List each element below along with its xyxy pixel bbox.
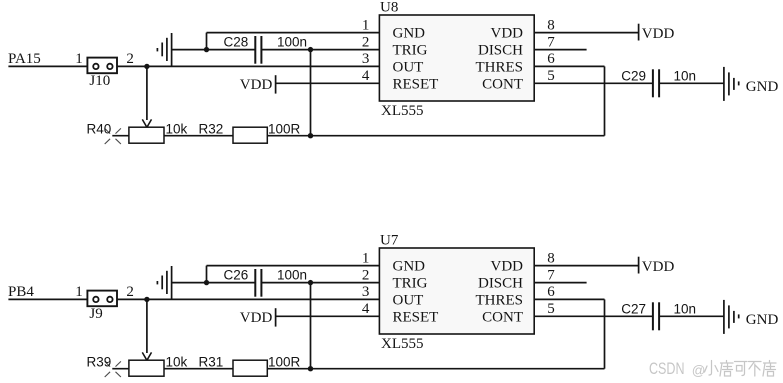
svg-text:7: 7 [547,267,555,283]
svg-text:TRIG: TRIG [393,43,428,59]
svg-text:4: 4 [362,68,370,84]
svg-text:DISCH: DISCH [478,276,523,292]
svg-text:3: 3 [362,284,370,300]
svg-text:100R: 100R [268,354,301,369]
svg-text:PA15: PA15 [8,51,41,67]
svg-text:C26: C26 [224,267,249,282]
svg-text:2: 2 [362,267,370,283]
svg-text:C28: C28 [224,34,249,49]
svg-text:OUT: OUT [393,292,424,308]
svg-text:PB4: PB4 [8,284,34,300]
svg-text:XL555: XL555 [381,103,424,119]
svg-text:R40: R40 [87,121,112,136]
svg-text:R31: R31 [199,354,224,369]
svg-text:J10: J10 [89,73,110,89]
svg-text:10k: 10k [166,354,188,369]
svg-text:VDD: VDD [642,259,675,275]
svg-text:6: 6 [547,51,555,67]
svg-text:VDD: VDD [642,26,675,42]
svg-text:100n: 100n [277,267,307,282]
svg-text:10k: 10k [166,121,188,136]
svg-text:2: 2 [126,284,133,300]
svg-text:2: 2 [362,34,370,50]
svg-text:VDD: VDD [240,310,273,326]
svg-text:10n: 10n [674,69,697,84]
svg-text:@: @ [692,363,706,378]
svg-text:THRES: THRES [475,292,523,308]
svg-text:DISCH: DISCH [478,43,523,59]
svg-text:10n: 10n [674,302,697,317]
svg-text:4: 4 [362,301,370,317]
svg-text:100n: 100n [277,34,307,49]
svg-text:XL555: XL555 [381,336,424,352]
svg-text:6: 6 [547,284,555,300]
svg-text:5: 5 [547,301,555,317]
svg-text:TRIG: TRIG [393,276,428,292]
svg-text:5: 5 [547,68,555,84]
svg-text:8: 8 [547,250,555,266]
svg-text:CONT: CONT [482,76,523,92]
svg-text:7: 7 [547,34,555,50]
svg-text:CONT: CONT [482,309,523,325]
svg-text:RESET: RESET [393,309,439,325]
svg-text:GND: GND [746,312,779,328]
svg-text:C29: C29 [621,69,646,84]
svg-text:VDD: VDD [491,259,524,275]
svg-text:C27: C27 [621,302,646,317]
svg-text:1: 1 [362,17,370,33]
svg-text:1: 1 [75,51,83,67]
svg-text:1: 1 [75,284,83,300]
svg-text:R32: R32 [199,121,224,136]
svg-text:VDD: VDD [240,77,273,93]
svg-text:2: 2 [126,51,133,67]
svg-text:OUT: OUT [393,59,424,75]
svg-text:RESET: RESET [393,76,439,92]
svg-text:CSDN: CSDN [649,359,685,378]
svg-text:8: 8 [547,17,555,33]
svg-text:R39: R39 [87,354,112,369]
svg-text:3: 3 [362,51,370,67]
svg-text:U8: U8 [380,0,398,16]
svg-text:VDD: VDD [491,26,524,42]
svg-text:GND: GND [393,26,426,42]
svg-text:GND: GND [746,79,779,95]
svg-text:J9: J9 [89,306,102,322]
svg-text:GND: GND [393,259,426,275]
svg-text:1: 1 [362,250,370,266]
svg-text:THRES: THRES [475,59,523,75]
svg-text:100R: 100R [268,121,301,136]
svg-text:U7: U7 [380,233,399,249]
